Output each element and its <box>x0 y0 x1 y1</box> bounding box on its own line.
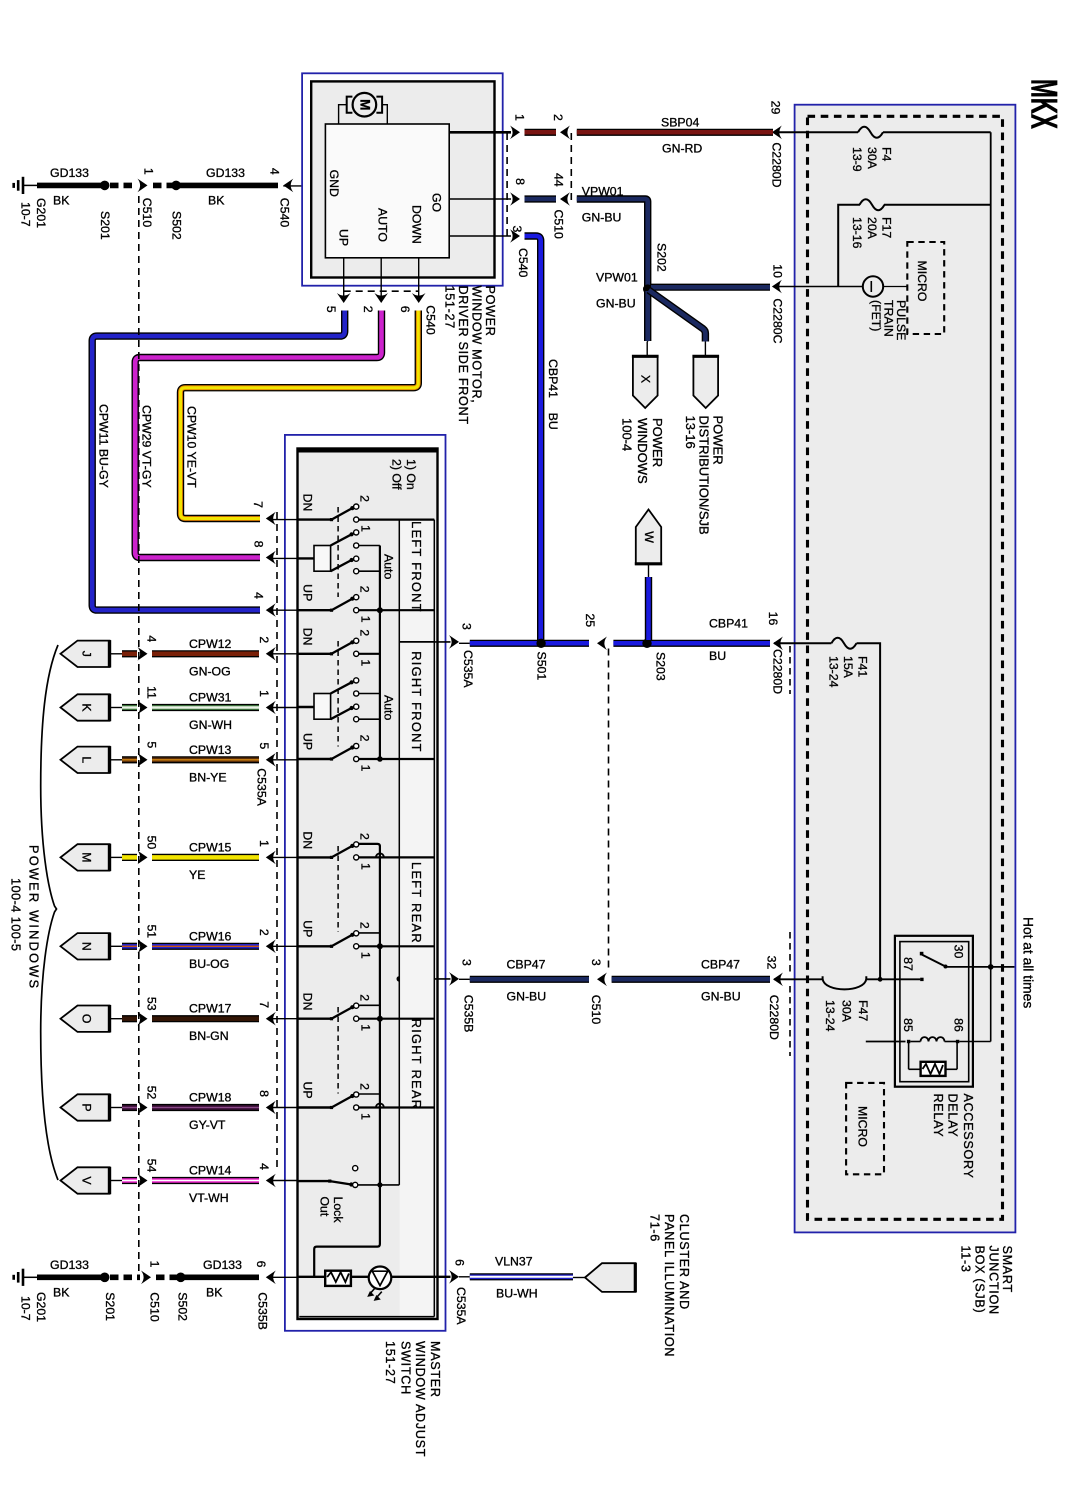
dashed C535A boundary <box>276 512 278 1172</box>
svg-text:100-4: 100-4 <box>620 418 635 451</box>
label LEFT FRONT <box>409 521 424 613</box>
pin 10 arrow <box>770 264 784 343</box>
svg-text:C535A: C535A <box>254 768 268 806</box>
svg-text:M: M <box>357 99 372 110</box>
svg-text:7: 7 <box>257 1001 271 1008</box>
label CPW10 YE-VT <box>184 406 198 488</box>
svg-text:13-9: 13-9 <box>850 147 864 172</box>
svg-text:MKX: MKX <box>1023 79 1064 129</box>
motor pin8 arrow <box>510 178 527 206</box>
connector V and wire CPW14 VT-WH <box>61 1159 298 1205</box>
svg-text:5: 5 <box>145 741 159 748</box>
illumination resistor <box>325 1271 351 1286</box>
relay coil <box>910 1037 956 1041</box>
svg-text:MICRO: MICRO <box>855 1106 869 1147</box>
main bus front section <box>377 546 383 762</box>
connector C510 arrow bottom <box>141 1261 162 1322</box>
dashed wire C510-S502 top <box>153 183 173 189</box>
svg-text:CPW12: CPW12 <box>189 637 232 651</box>
wire pin16 to fuse F41 <box>774 642 831 644</box>
svg-text:J: J <box>79 651 93 657</box>
connector J and wire CPW12 GN-OG <box>61 635 298 678</box>
svg-text:4: 4 <box>252 592 266 599</box>
motor bottom pin labels <box>324 306 412 313</box>
label CBP41 BU seg2 <box>709 617 748 664</box>
svg-text:C510: C510 <box>589 995 603 1025</box>
label CPW11 BU-GY <box>96 404 110 488</box>
smart junction box SJB outline <box>795 105 1016 1233</box>
power window motor blue box <box>302 73 503 285</box>
pin4 arrow <box>252 592 298 617</box>
wire F17 from bus <box>884 204 991 206</box>
svg-text:CBP41: CBP41 <box>709 617 748 631</box>
svg-text:C540: C540 <box>277 198 291 228</box>
label MASTER WINDOW ADJUST SWITCH <box>383 1341 442 1457</box>
svg-text:W: W <box>642 531 656 543</box>
svg-text:BU-WH: BU-WH <box>496 1287 538 1301</box>
svg-text:GY-VT: GY-VT <box>189 1118 226 1132</box>
connector M and wire CPW15 YE <box>61 836 298 882</box>
fuse F4 <box>858 127 883 138</box>
svg-text:CPW31: CPW31 <box>189 691 232 705</box>
wire CBP41 BU segment1 <box>470 640 589 647</box>
svg-text:3: 3 <box>589 959 603 966</box>
connector C510 arrow top <box>138 168 156 227</box>
left rear UP contact2 feed <box>358 932 380 934</box>
svg-text:1: 1 <box>358 616 372 623</box>
label LEFT REAR <box>409 862 424 944</box>
inner column bottom <box>299 1316 434 1318</box>
svg-text:3: 3 <box>510 225 524 232</box>
right rear coupling dashed <box>337 1007 339 1094</box>
svg-text:1: 1 <box>257 840 271 847</box>
motor pin3 wire <box>449 235 511 237</box>
label G201 10-7 bottom <box>18 1292 48 1322</box>
svg-text:K: K <box>79 703 93 712</box>
off-page connector to power distribution <box>692 356 719 408</box>
off-page connector cluster <box>585 1263 635 1293</box>
motor leads <box>339 105 388 124</box>
label SMART JUNCTION BOX <box>959 1246 1015 1315</box>
label GD133 BK 1 bottom <box>50 1258 89 1300</box>
motor bottom dashed connector <box>344 290 419 292</box>
svg-text:1) On: 1) On <box>404 459 418 490</box>
svg-text:BU: BU <box>709 649 726 663</box>
svg-text:GO: GO <box>429 193 443 212</box>
wire CPW29 VT-GY <box>135 311 381 558</box>
label 1) On 2) Off <box>389 459 418 490</box>
svg-text:P: P <box>79 1103 93 1111</box>
fuse F47 loop <box>823 976 867 989</box>
motor pin1 wire <box>449 131 511 134</box>
svg-text:F41: F41 <box>855 656 869 677</box>
left front coupling dashed <box>337 507 339 597</box>
svg-text:BU: BU <box>546 413 560 430</box>
svg-text:44: 44 <box>551 173 565 187</box>
dashed C510 boundary top <box>570 133 572 201</box>
svg-text:SWITCH: SWITCH <box>399 1341 413 1395</box>
right front DN switch <box>298 628 380 667</box>
C535B pin6 arrow <box>254 1261 276 1330</box>
svg-text:CPW15: CPW15 <box>189 840 232 854</box>
svg-text:CPW10 YE-VT: CPW10 YE-VT <box>184 406 198 488</box>
dashed C510 long boundary <box>138 196 140 1272</box>
svg-text:CPW29 VT-GY: CPW29 VT-GY <box>139 405 153 488</box>
svg-text:CLUSTER AND: CLUSTER AND <box>677 1214 691 1310</box>
svg-text:13-16: 13-16 <box>850 217 864 249</box>
svg-text:GN-OG: GN-OG <box>189 664 231 678</box>
svg-text:PANEL ILLUMINATION: PANEL ILLUMINATION <box>662 1214 676 1357</box>
svg-text:O: O <box>79 1014 93 1024</box>
svg-text:DN: DN <box>300 831 314 849</box>
pulse train FET circle <box>863 276 883 296</box>
off-page connector X <box>632 356 659 408</box>
label MKX <box>1023 79 1064 129</box>
relay resistor branch <box>909 1043 958 1069</box>
svg-text:CPW17: CPW17 <box>189 1002 232 1016</box>
svg-text:2: 2 <box>551 114 565 121</box>
svg-text:GD133: GD133 <box>50 1258 89 1272</box>
off-page connector W <box>635 510 662 564</box>
svg-text:ACCESSORY: ACCESSORY <box>961 1094 975 1179</box>
splice S201 top <box>98 181 112 240</box>
svg-text:15A: 15A <box>841 656 855 679</box>
VPW01 stub <box>525 195 557 202</box>
svg-text:2: 2 <box>357 922 371 929</box>
C510 pin25 arrow <box>583 613 607 650</box>
hot at all times wire <box>946 964 1015 970</box>
label CBP41 BU vertical <box>546 359 560 430</box>
svg-text:S502: S502 <box>169 211 183 240</box>
svg-text:CBP41: CBP41 <box>546 359 560 398</box>
svg-text:POWER: POWER <box>711 416 726 465</box>
svg-text:VPW01: VPW01 <box>596 271 638 285</box>
pin 29 arrow <box>768 101 783 188</box>
svg-text:32: 32 <box>764 956 778 970</box>
ground wire GD133 segment2 top <box>179 183 278 189</box>
relay coil pin86 contact <box>956 1040 959 1043</box>
svg-text:30A: 30A <box>839 1000 853 1023</box>
svg-text:SBP04: SBP04 <box>661 116 699 130</box>
motor M circle <box>353 93 377 117</box>
splice S201 bottom <box>100 1273 117 1322</box>
inner column left edge <box>398 520 400 1185</box>
SJB internal vertical bus <box>990 132 992 967</box>
label CPW29 VT-GY <box>139 405 153 488</box>
CBP41 output thin <box>459 642 470 644</box>
ground wire GD133 segment1 top <box>37 183 103 189</box>
svg-text:30A: 30A <box>865 147 879 170</box>
fuse F17 label <box>850 217 894 249</box>
relay pin 86 label <box>951 1018 965 1032</box>
svg-text:52: 52 <box>145 1086 159 1100</box>
wire lamp to output <box>391 1276 450 1278</box>
relay resistor <box>921 1062 946 1076</box>
switch inner column <box>399 520 434 1317</box>
master switch blue box <box>285 435 446 1331</box>
CBP41 output arrow <box>449 623 475 688</box>
wire pin10 to FET <box>774 286 863 288</box>
svg-text:C510: C510 <box>148 1292 162 1322</box>
svg-text:4: 4 <box>257 1163 271 1170</box>
left front DN switch <box>298 494 435 533</box>
svg-text:CPW18: CPW18 <box>189 1091 232 1105</box>
wire VPW01 GN-BU to pin10 <box>651 284 770 291</box>
label POWER WINDOWS 100-4 100-5 <box>9 845 42 990</box>
svg-text:2: 2 <box>357 586 371 593</box>
connector N and wire CPW16 BU-OG <box>61 924 298 970</box>
label PULSE TRAIN FET <box>869 300 908 340</box>
svg-text:6: 6 <box>254 1261 268 1268</box>
wire CBP47 GN-BU segment2 <box>612 976 770 983</box>
svg-text:2: 2 <box>357 735 371 742</box>
svg-text:1: 1 <box>257 690 271 697</box>
wire F41 corner down <box>857 643 881 979</box>
splice S502 bottom <box>175 1273 189 1322</box>
svg-text:C535A: C535A <box>454 1287 468 1325</box>
svg-text:GD133: GD133 <box>203 1258 242 1272</box>
svg-text:LEFT REAR: LEFT REAR <box>409 862 424 944</box>
splice S502 top <box>169 181 183 240</box>
label ACCESSORY DELAY RELAY <box>931 1094 975 1179</box>
relay pin 87 label <box>901 957 915 971</box>
svg-text:2: 2 <box>357 833 371 840</box>
svg-text:C510: C510 <box>140 198 154 228</box>
svg-text:85: 85 <box>901 1018 915 1032</box>
svg-text:29: 29 <box>768 101 782 115</box>
accessory delay relay inner box <box>900 942 969 1082</box>
svg-text:POWER: POWER <box>650 418 665 467</box>
ground wire GD133 segment2 bottom <box>184 1275 259 1281</box>
master switch CBP41 output line <box>399 641 450 643</box>
svg-text:MICRO: MICRO <box>915 261 929 302</box>
svg-text:WINDOWS: WINDOWS <box>635 418 650 484</box>
motor GO wire <box>449 198 511 200</box>
wire into motor GND <box>283 185 325 187</box>
svg-text:C540: C540 <box>423 305 437 335</box>
svg-text:UP: UP <box>300 733 314 750</box>
svg-text:6: 6 <box>453 1259 467 1266</box>
svg-text:Lock: Lock <box>331 1197 345 1224</box>
label MICRO 2 <box>855 1106 869 1147</box>
wire F17 to corner <box>838 205 860 287</box>
svg-text:10-7: 10-7 <box>18 202 32 227</box>
right front box top line <box>399 641 434 643</box>
svg-text:1: 1 <box>358 863 372 870</box>
left front UP switch <box>298 584 435 623</box>
right rear UP switch <box>298 1082 435 1121</box>
relay pin 30 contact and blade <box>920 952 948 969</box>
label MICRO 1 <box>915 261 929 302</box>
svg-text:87: 87 <box>901 957 915 971</box>
svg-text:(FET): (FET) <box>869 300 883 331</box>
svg-text:YE: YE <box>189 868 205 882</box>
svg-text:C540: C540 <box>516 248 530 278</box>
svg-text:V: V <box>79 1176 93 1185</box>
svg-text:8: 8 <box>252 541 266 548</box>
pin 16 arrow <box>766 612 784 695</box>
svg-text:N: N <box>79 942 93 951</box>
label GO <box>429 193 443 212</box>
dashed wire bottom b <box>156 1275 177 1281</box>
right rear DN switch <box>298 993 435 1032</box>
label VPW01 GN-BU upper <box>582 185 624 225</box>
svg-text:4: 4 <box>268 168 282 175</box>
svg-text:3: 3 <box>460 959 474 966</box>
label AUTO <box>375 208 389 242</box>
svg-text:2: 2 <box>357 495 371 502</box>
power window motor gray box <box>311 81 494 277</box>
wire CPW11 BU-GY <box>92 311 345 611</box>
label POWER WINDOWS 100-4 <box>620 418 666 484</box>
svg-text:2: 2 <box>357 994 371 1001</box>
label RIGHT REAR <box>409 1019 424 1111</box>
wire resistor to lamp <box>351 1276 369 1278</box>
svg-text:CPW14: CPW14 <box>189 1164 232 1178</box>
svg-text:CPW13: CPW13 <box>189 743 232 757</box>
svg-text:1: 1 <box>148 1261 162 1268</box>
svg-text:1: 1 <box>358 525 372 532</box>
label CLUSTER AND PANEL ILLUMINATION 71-6 <box>648 1214 692 1357</box>
svg-text:RIGHT FRONT: RIGHT FRONT <box>409 651 424 753</box>
svg-text:2: 2 <box>257 636 271 643</box>
C510 pin44 arrow <box>551 173 570 206</box>
label SBP04 GN-RD <box>661 116 702 156</box>
svg-text:1: 1 <box>358 1113 372 1120</box>
svg-text:JUNCTION: JUNCTION <box>987 1246 1001 1315</box>
lock out switch <box>298 1166 400 1188</box>
label VPW01 GN-BU lower <box>596 271 638 311</box>
svg-text:CPW11 BU-GY: CPW11 BU-GY <box>96 404 110 488</box>
svg-text:2: 2 <box>357 629 371 636</box>
relay coil pin85 contact <box>907 1040 910 1043</box>
connector P and wire CPW18 GY-VT <box>61 1086 298 1132</box>
relay coil to bus <box>959 967 990 1042</box>
wire CBP47 GN-BU segment1 <box>470 976 589 983</box>
svg-text:1: 1 <box>358 952 372 959</box>
label GD133 BK 2 bottom <box>203 1258 242 1300</box>
svg-text:11: 11 <box>145 686 159 699</box>
svg-text:DN: DN <box>300 993 314 1011</box>
svg-text:C535B: C535B <box>461 995 475 1033</box>
svg-text:71-6: 71-6 <box>648 1214 662 1242</box>
left rear DN switch <box>298 831 435 870</box>
dashed wire to C510 top <box>110 183 137 189</box>
left front auto switch <box>298 530 396 580</box>
svg-text:BN-YE: BN-YE <box>189 770 227 784</box>
svg-text:S202: S202 <box>654 243 668 272</box>
svg-text:2: 2 <box>357 1083 371 1090</box>
svg-text:S502: S502 <box>175 1292 189 1321</box>
svg-text:G201: G201 <box>34 198 48 228</box>
svg-text:Auto: Auto <box>381 554 395 579</box>
svg-text:16: 16 <box>766 612 780 626</box>
label GD133 BK 1 top <box>50 166 89 208</box>
svg-text:DN: DN <box>300 494 314 512</box>
svg-text:C2280D: C2280D <box>769 142 783 187</box>
master switch gray box <box>298 449 438 1320</box>
label CBP47 GN-BU seg1 <box>507 958 547 1004</box>
fuse F41 <box>831 638 856 649</box>
svg-text:DELAY: DELAY <box>946 1094 960 1138</box>
ground symbol G201 top <box>14 177 38 194</box>
svg-text:UP: UP <box>336 229 350 246</box>
splice S202 <box>643 243 668 294</box>
svg-text:Hot at all times: Hot at all times <box>1020 917 1035 1008</box>
fuse F17 <box>860 199 885 210</box>
svg-text:20A: 20A <box>865 217 879 240</box>
svg-text:LEFT FRONT: LEFT FRONT <box>409 521 424 613</box>
ground symbol G201 bottom <box>14 1269 38 1286</box>
power windows brace <box>41 645 58 1180</box>
motor bottom arrows <box>337 293 426 303</box>
svg-text:L: L <box>79 756 93 763</box>
svg-text:POWER WINDOWS: POWER WINDOWS <box>27 845 42 990</box>
svg-text:1: 1 <box>358 1024 372 1031</box>
wire VLN37 BU-WH <box>459 1276 573 1278</box>
relay pin 87 contact <box>920 978 923 981</box>
wire CPW10 YE-VT <box>181 311 419 519</box>
left rear UP switch <box>298 920 435 959</box>
right front UP switch <box>298 733 435 772</box>
dashed wire bottom a <box>110 1275 140 1281</box>
svg-text:S201: S201 <box>98 211 112 240</box>
wire S202 diagonal to power distribution <box>649 290 706 356</box>
splice S501 <box>534 639 548 681</box>
label GD133 BK 2 top <box>206 166 245 208</box>
svg-text:86: 86 <box>951 1018 965 1032</box>
C510 pin3 arrow mid <box>589 959 607 1024</box>
MICRO box 1 <box>907 242 944 334</box>
svg-text:BOX (SJB): BOX (SJB) <box>973 1246 987 1314</box>
connector L and wire CPW13 BN-YE <box>61 741 298 784</box>
svg-text:11-3: 11-3 <box>959 1246 973 1273</box>
svg-text:RIGHT REAR: RIGHT REAR <box>409 1019 424 1111</box>
left rear DN contact2 feed <box>358 844 380 1185</box>
svg-text:10: 10 <box>770 264 784 278</box>
wire CBP41 BU segment2 <box>613 640 770 647</box>
svg-text:F4: F4 <box>879 147 893 162</box>
svg-text:DN: DN <box>300 628 314 646</box>
svg-text:BK: BK <box>206 1286 223 1300</box>
left rear coupling dashed <box>337 846 339 932</box>
inner column right edge <box>433 520 435 1317</box>
motor pin1 arrow <box>510 114 526 139</box>
svg-text:13-24: 13-24 <box>823 1000 837 1032</box>
svg-text:F47: F47 <box>856 1000 870 1021</box>
svg-text:DOWN: DOWN <box>409 205 423 244</box>
svg-text:C2280C: C2280C <box>770 298 784 343</box>
svg-text:VT-WH: VT-WH <box>189 1191 229 1205</box>
label POWER WINDOW MOTOR DRIVER SIDE FRONT <box>443 286 498 425</box>
relay pin 30 label <box>951 945 965 959</box>
svg-text:51: 51 <box>145 924 159 938</box>
label UP motor <box>336 229 350 246</box>
svg-text:7: 7 <box>251 501 265 508</box>
label CBP47 GN-BU seg2 <box>701 958 741 1004</box>
svg-text:RELAY: RELAY <box>931 1094 945 1138</box>
svg-text:CBP47: CBP47 <box>507 958 546 972</box>
svg-text:GN-BU: GN-BU <box>582 211 622 225</box>
svg-text:C2280D: C2280D <box>770 649 784 694</box>
label VLN37 BU-WH <box>495 1255 538 1301</box>
svg-text:GN-BU: GN-BU <box>701 990 741 1004</box>
svg-text:MASTER: MASTER <box>428 1341 442 1398</box>
wire SBP04 GN-RD <box>577 129 773 136</box>
svg-text:POWER: POWER <box>483 286 497 337</box>
svg-text:C2280D: C2280D <box>767 995 781 1040</box>
label C510 top <box>552 210 566 240</box>
